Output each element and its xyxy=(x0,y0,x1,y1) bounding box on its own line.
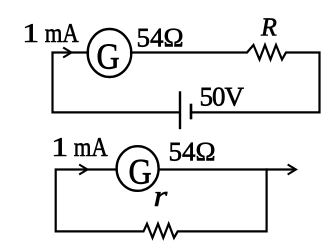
svg-text:r: r xyxy=(154,180,168,213)
svg-text:54Ω: 54Ω xyxy=(169,137,216,167)
svg-text:1: 1 xyxy=(22,18,39,48)
svg-text:G: G xyxy=(97,35,120,76)
svg-text:mA: mA xyxy=(45,18,79,48)
svg-text:R: R xyxy=(260,13,277,42)
svg-text:mA: mA xyxy=(74,132,108,162)
svg-text:54Ω: 54Ω xyxy=(137,23,184,53)
svg-text:G: G xyxy=(129,151,152,191)
svg-text:1: 1 xyxy=(51,132,68,162)
svg-text:50V: 50V xyxy=(200,82,245,112)
